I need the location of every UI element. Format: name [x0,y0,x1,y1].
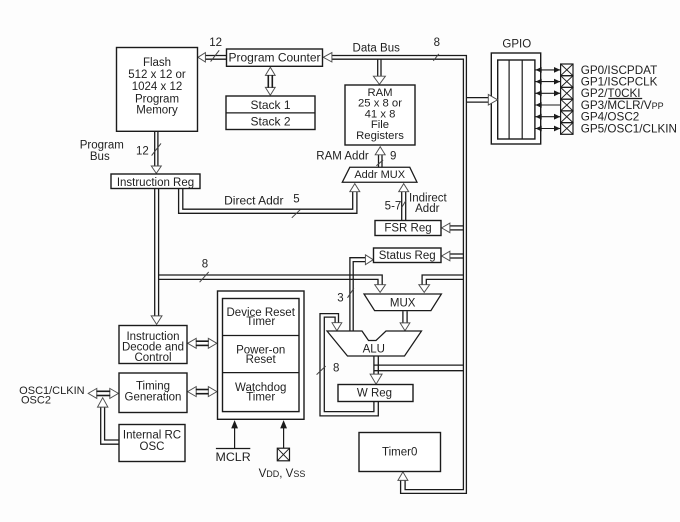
svg-text:OSC: OSC [140,441,165,453]
svg-text:VDD, VSS: VDD, VSS [259,468,306,480]
svg-text:GPIO: GPIO [502,39,531,51]
svg-text:Addr MUX: Addr MUX [354,169,405,181]
svg-text:GP5/OSC1/CLKIN: GP5/OSC1/CLKIN [581,122,677,135]
svg-text:OSC2: OSC2 [21,395,51,407]
svg-text:Registers: Registers [356,130,404,142]
svg-text:12: 12 [209,37,222,49]
svg-text:8: 8 [333,363,339,375]
svg-text:Status Reg: Status Reg [379,250,436,262]
svg-text:12: 12 [136,146,149,158]
svg-text:8: 8 [202,259,208,271]
svg-text:512 x 12 or: 512 x 12 or [128,69,186,81]
svg-text:Memory: Memory [136,105,178,117]
svg-text:Control: Control [134,352,171,364]
svg-text:MCLR: MCLR [216,450,251,464]
svg-text:Stack 2: Stack 2 [250,115,290,129]
svg-text:Program Counter: Program Counter [228,51,320,65]
svg-text:Timer: Timer [246,392,275,404]
svg-text:Stack 1: Stack 1 [250,98,290,112]
svg-text:1024 x 12: 1024 x 12 [132,81,183,93]
svg-text:Flash: Flash [143,57,171,69]
svg-text:MUX: MUX [390,297,416,309]
svg-text:Reset: Reset [246,354,277,366]
svg-text:Direct Addr: Direct Addr [224,194,283,208]
svg-text:8: 8 [434,37,440,49]
svg-text:ALU: ALU [363,344,385,356]
svg-text:3: 3 [337,293,343,305]
svg-text:Timer: Timer [246,316,275,328]
svg-text:Generation: Generation [125,391,182,403]
svg-text:5: 5 [293,194,299,206]
svg-text:W Reg: W Reg [357,388,392,400]
svg-text:RAM Addr: RAM Addr [316,151,369,163]
svg-text:FSR Reg: FSR Reg [384,223,431,235]
svg-text:Bus: Bus [90,151,110,163]
svg-text:Data Bus: Data Bus [353,43,401,55]
svg-text:Program: Program [80,140,124,152]
svg-text:5-7: 5-7 [385,201,402,213]
svg-text:Addr: Addr [415,203,439,215]
svg-text:9: 9 [390,151,396,163]
svg-text:Internal RC: Internal RC [123,430,181,442]
svg-text:Instruction Reg: Instruction Reg [117,177,194,189]
svg-text:Timer0: Timer0 [382,446,417,458]
